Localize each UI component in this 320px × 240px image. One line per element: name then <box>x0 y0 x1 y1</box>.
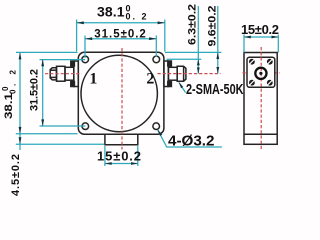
svg-text:38.1: 38.1 <box>97 4 125 20</box>
flange hole BL <box>249 80 255 86</box>
4-dia3.2 leader <box>158 130 222 147</box>
screw hole bottom-right <box>153 123 160 130</box>
svg-text:2-SMA-50K: 2-SMA-50K <box>186 81 244 98</box>
right SMA connector <box>164 61 186 87</box>
left 31.5 dim <box>40 59 86 126</box>
svg-text:4.5±0.2: 4.5±0.2 <box>10 154 22 196</box>
left 38.1 dim <box>16 52 105 150</box>
svg-text:0. 2: 0. 2 <box>126 12 147 22</box>
flange hole TL <box>249 59 255 65</box>
center conductor <box>255 68 266 79</box>
svg-text:6.3±0.2: 6.3±0.2 <box>187 4 199 45</box>
svg-text:15±0.2: 15±0.2 <box>97 148 141 163</box>
side flange centerline horizontal <box>243 72 280 74</box>
6.3 dim arrows <box>197 59 200 65</box>
right centerline <box>158 73 221 75</box>
svg-text:38.1: 38.1 <box>3 93 15 119</box>
svg-text:31.5±0.2: 31.5±0.2 <box>29 69 41 111</box>
side flange <box>247 57 275 87</box>
svg-text:15±0.2: 15±0.2 <box>241 22 279 37</box>
top 38.1 dim <box>77 20 165 52</box>
svg-text:1: 1 <box>89 71 97 88</box>
screw hole top-left <box>82 56 89 63</box>
2-SMA-50K leader <box>179 83 186 93</box>
bottom tab <box>105 134 138 145</box>
side view outline <box>244 53 277 145</box>
screw hole top-right <box>153 56 160 63</box>
svg-text:31.5±0.2: 31.5±0.2 <box>94 29 146 41</box>
bottom 15 dim <box>105 146 138 166</box>
side view divider <box>244 133 277 135</box>
screw hole bottom-left <box>82 123 89 130</box>
svg-text:2: 2 <box>146 71 154 88</box>
svg-text:9.6±0.2: 9.6±0.2 <box>207 6 219 47</box>
right ext lines <box>165 6 221 74</box>
top 31.5 dim <box>85 36 156 59</box>
front vertical centerline <box>121 48 123 150</box>
top-right 15 dim <box>244 35 278 53</box>
left centerline <box>45 73 82 75</box>
9.6 dim arrows <box>216 52 219 59</box>
flange hole BR <box>267 80 273 86</box>
front view body <box>78 52 164 134</box>
side view centerline vertical <box>260 47 262 151</box>
cavity circle <box>81 55 157 131</box>
flange hole TR <box>267 59 273 65</box>
left SMA connector <box>50 61 78 87</box>
svg-text:4-Ø3.2: 4-Ø3.2 <box>168 134 215 150</box>
